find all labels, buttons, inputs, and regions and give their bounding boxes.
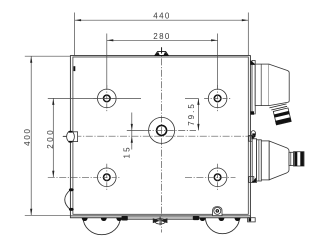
wheel right	[205, 218, 239, 234]
svg-text:200: 200	[46, 128, 55, 149]
svg-text:79.5: 79.5	[187, 102, 196, 126]
hole bottom-left	[93, 164, 120, 191]
dimension 15	[123, 113, 145, 159]
attachment top-right: cylinder	[255, 64, 269, 106]
horizontal centerline	[63, 135, 257, 137]
left handle arc	[65, 188, 74, 211]
dimension 280	[107, 32, 218, 89]
bottom-right corner foot	[248, 218, 256, 222]
attachment bottom-right: cone	[269, 141, 289, 180]
attachment bottom-right: drum	[261, 141, 269, 180]
dimension 400	[23, 56, 70, 215]
attachment bottom-right: top tab	[249, 135, 254, 141]
attachment top-right: flange	[251, 60, 257, 115]
bottom rail	[70, 216, 250, 218]
attachment bottom-right: plate	[252, 139, 256, 183]
angled connector bands	[273, 108, 291, 125]
svg-text:280: 280	[153, 32, 171, 41]
dimension 79.5	[185, 98, 200, 130]
attachment top-right: cone	[269, 64, 289, 106]
attachment bottom-right: plug	[294, 152, 305, 166]
attachment top-right: angled connector	[269, 104, 287, 110]
body outline outer	[70, 56, 250, 218]
vertical centerline	[161, 47, 163, 233]
mid rail bar	[122, 216, 199, 221]
wheel hubs	[82, 216, 241, 221]
right latch	[251, 131, 256, 140]
hole top-left	[93, 85, 120, 112]
svg-text:440: 440	[153, 11, 171, 20]
attachment bottom-right: neck	[289, 152, 294, 165]
hole top-right	[204, 85, 231, 112]
svg-text:400: 400	[23, 127, 32, 145]
center foot	[153, 217, 168, 226]
left latch	[63, 131, 78, 143]
body outline inner	[73, 57, 248, 214]
attachment bottom-right: bottom tab	[249, 177, 256, 183]
hole center	[144, 117, 196, 143]
wheel left	[83, 218, 120, 235]
dimension 200	[46, 98, 141, 177]
screw bottom center-right	[213, 207, 222, 216]
dimension 440	[75, 11, 249, 55]
hole bottom-right	[185, 164, 236, 191]
left edge tick	[74, 66, 76, 71]
attachment bottom-right: cyl1	[257, 140, 262, 181]
svg-text:15: 15	[123, 145, 132, 158]
lifting lug top	[155, 48, 169, 56]
